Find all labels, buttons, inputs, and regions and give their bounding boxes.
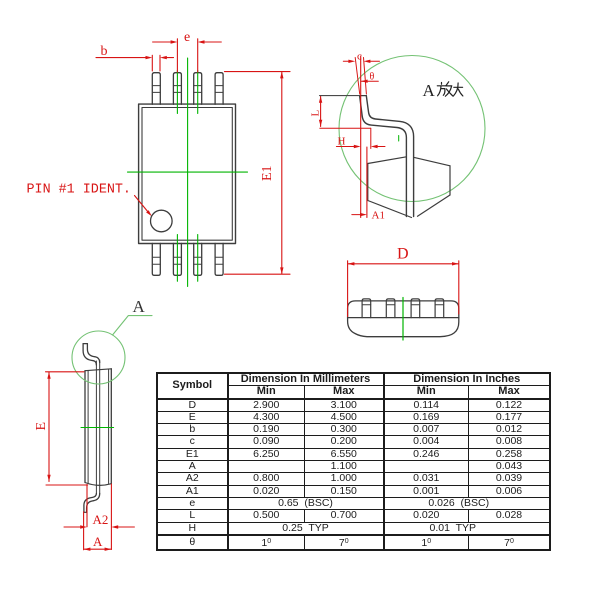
side view top lead inner edge	[87, 344, 99, 363]
dimension A1 line and arrow	[352, 214, 360, 216]
dimension theta arrows	[361, 80, 379, 82]
dimension L bottom extension	[320, 127, 371, 129]
pin 1 indent circle	[151, 210, 173, 232]
side view lead line right	[99, 360, 101, 493]
view A leader line	[113, 316, 153, 335]
dimension E1 arrows	[280, 72, 283, 79]
D view body bottom	[348, 318, 459, 337]
side view body left outer edge	[84, 371, 86, 483]
svg-text:e: e	[184, 30, 190, 45]
dimension L line and arrows	[320, 96, 322, 127]
green centerline pin 7 top	[176, 71, 178, 114]
detail body top-right slope	[414, 157, 450, 166]
green centerline pin 2 bottom	[176, 235, 178, 282]
svg-text:A2: A2	[93, 512, 109, 527]
svg-text:H: H	[338, 136, 346, 148]
side view body inner left line	[87, 371, 89, 484]
svg-text:A: A	[423, 81, 436, 100]
detail red vertical A1 right extension	[366, 147, 368, 218]
detail lead left edge	[360, 96, 407, 217]
top view pin 5 (top row 4)	[215, 73, 223, 105]
top view body outer outline	[139, 104, 236, 243]
D view lead tab 2	[386, 299, 395, 318]
side view bottom lead inner edge	[84, 493, 97, 512]
D view lead tab 4	[435, 299, 444, 318]
D view lead tab 1	[362, 299, 371, 318]
side view bottom lead tip	[84, 511, 87, 513]
view A indicator circle	[72, 331, 125, 384]
detail lead right edge	[366, 96, 413, 217]
detail view title glyph FANG (CJK)	[437, 83, 445, 96]
dimension c extension and arrows	[343, 58, 379, 95]
green centerline pin 6 top	[197, 71, 199, 114]
svg-text:A: A	[93, 534, 103, 549]
top view pin 7 (top row 2)	[173, 73, 181, 105]
detail view title glyph DA (CJK)	[453, 83, 463, 96]
detail body bottom-left slope	[368, 201, 412, 218]
svg-text:E: E	[34, 422, 49, 431]
green centerline pin 3 bottom	[197, 235, 199, 282]
svg-text:A: A	[133, 297, 146, 316]
detail body left vertical	[367, 164, 369, 201]
detail view title glyph PU (CJK)	[445, 82, 452, 96]
dimension e lines and arrows	[153, 39, 222, 72]
top view pin 4 (bottom row 4)	[215, 243, 223, 275]
svg-text:b: b	[101, 44, 108, 59]
D view body parting line	[348, 317, 459, 319]
detail green center tick	[398, 136, 400, 142]
side view body right outer edge	[110, 369, 112, 484]
dimension A2 lines and arrows	[64, 484, 134, 550]
top view pin 8 (top row 1)	[152, 73, 160, 105]
PIN #1 leader line and arrow	[135, 196, 149, 213]
detail body top-left slope	[368, 157, 407, 164]
svg-text:E1: E1	[260, 165, 275, 181]
side view body bottom edge	[85, 483, 111, 486]
dimension H lines and arrows	[336, 128, 385, 148]
svg-text:D: D	[397, 246, 409, 263]
top view pin 2 (bottom row 2)	[173, 243, 181, 275]
detail body right vertical	[449, 166, 451, 195]
side view bottom lead outer edge	[87, 493, 100, 512]
svg-text:A1: A1	[372, 209, 385, 221]
dimension b lines and arrows	[96, 55, 174, 71]
side view green horizontal centerline	[81, 427, 114, 429]
top view body inner outline	[142, 108, 232, 241]
detail view A circle	[339, 56, 485, 202]
D view lead tab 3	[411, 299, 420, 318]
side view lead line left	[95, 361, 97, 493]
D view body top band	[348, 301, 459, 318]
top view vertical green centerline	[187, 58, 189, 287]
top view pin 6 (top row 3)	[194, 73, 202, 105]
dimension E lines and arrows	[46, 372, 88, 485]
dimension D lines and arrows	[348, 261, 459, 317]
svg-text:L: L	[310, 110, 322, 117]
top view horizontal green centerline	[128, 171, 248, 173]
side view top lead outer edge	[83, 344, 96, 365]
top view pin 3 (bottom row 3)	[194, 243, 202, 275]
dimension table	[156, 372, 551, 551]
dimension A lines and arrows	[84, 512, 112, 550]
D view green centerline	[402, 298, 404, 341]
detail red vertical reference line	[360, 56, 362, 218]
side view body inner right line	[108, 369, 110, 484]
side view top lead tip	[83, 343, 87, 345]
dimension L top extension (dark)	[320, 95, 360, 97]
side view body top edge	[85, 369, 111, 371]
top view pin 1 (bottom row 1)	[152, 243, 160, 275]
dimension E1 extension lines	[225, 72, 291, 275]
detail lead tip	[360, 95, 367, 97]
detail body bottom-right slope	[418, 195, 451, 216]
svg-text:PIN #1 IDENT.: PIN #1 IDENT.	[27, 183, 131, 198]
